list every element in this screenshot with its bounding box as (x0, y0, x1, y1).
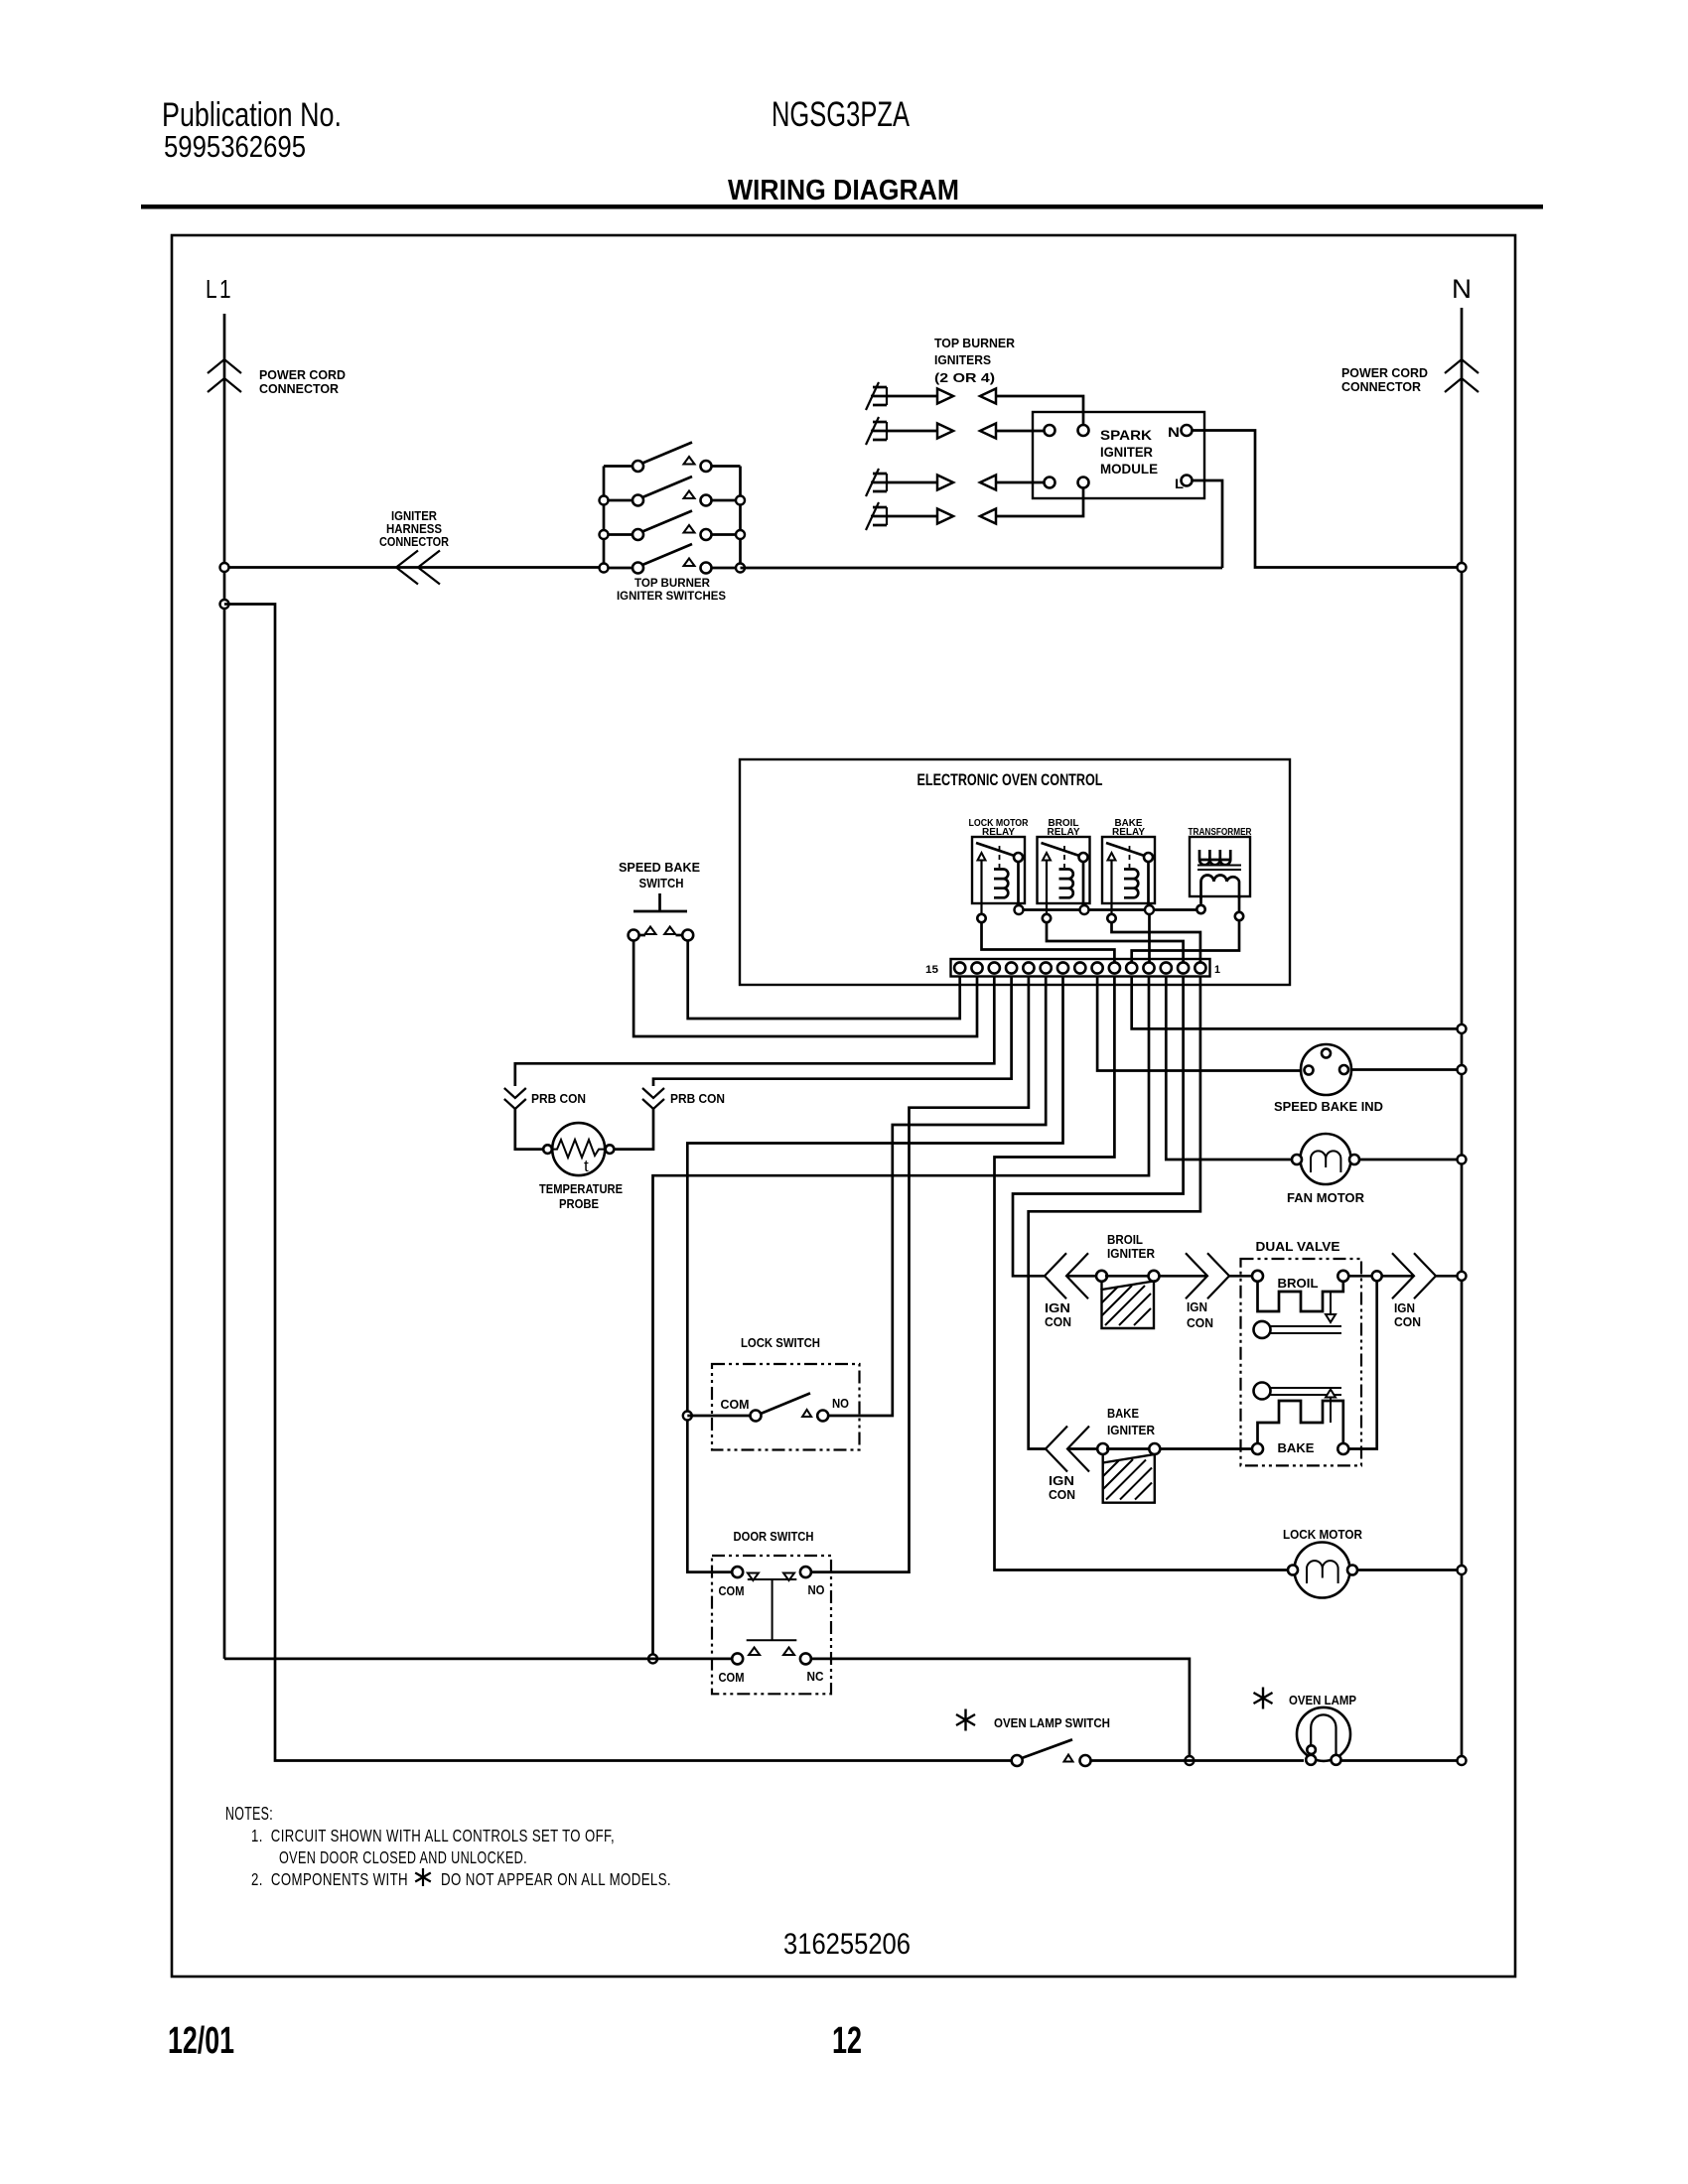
door switch plunger (747, 1579, 797, 1640)
svg-text:IGN: IGN (1187, 1300, 1207, 1314)
probe connector PRB CON right (642, 1088, 725, 1109)
svg-text:NO: NO (832, 1397, 849, 1411)
text model NGSG3PZA (772, 95, 910, 134)
igniter harness connector (379, 509, 449, 585)
svg-text:CON: CON (1187, 1316, 1213, 1330)
text title WIRING DIAGRAM (728, 175, 959, 206)
top burner igniter switch 4 (600, 544, 746, 574)
text broil igniter label (1107, 1233, 1155, 1261)
wire igniter row3 to module (996, 481, 1044, 484)
fan motor M1 (1287, 1134, 1365, 1205)
wire terminal 12 to probe connector right (653, 977, 1012, 1087)
svg-text:CON: CON (1045, 1315, 1071, 1329)
svg-text:PRB CON: PRB CON (531, 1092, 586, 1106)
svg-text:CONNECTOR: CONNECTOR (1341, 379, 1422, 394)
junction L1 lamp branch (220, 600, 229, 609)
svg-text:5995362695: 5995362695 (164, 129, 306, 164)
svg-text:TOP BURNER: TOP BURNER (634, 578, 711, 590)
ign con connector bake left (1046, 1427, 1097, 1503)
lock motor M2 (1288, 1543, 1357, 1598)
oven lamp switch S3 (1012, 1739, 1091, 1766)
wire terminal 7 to speed bake indicator (1097, 977, 1303, 1071)
wire lock motor to N rail (1357, 1569, 1457, 1571)
ign con connector output (1392, 1253, 1436, 1329)
svg-text:SPEED BAKE: SPEED BAKE (619, 860, 700, 875)
door switch lower contacts (719, 1648, 824, 1686)
border frame (172, 235, 1515, 1977)
title underline (141, 205, 1543, 209)
top burner igniter 3 (866, 469, 996, 496)
wire terminal 9 to lock and door switch COM (687, 977, 1062, 1572)
svg-text:TEMPERATURE: TEMPERATURE (539, 1182, 623, 1196)
lock switch S2 (721, 1393, 850, 1421)
relay K1 lock motor relay (972, 837, 1025, 922)
wire speed bake switch left to terminal 14 (633, 941, 977, 1037)
wire terminal 11 to door switch NO (811, 977, 1029, 1572)
wire L1 bus to igniter switches (229, 566, 600, 569)
text oven lamp switch label with asterisk (956, 1709, 1110, 1731)
top burner igniter 1 (866, 382, 996, 410)
svg-text:N: N (1168, 425, 1180, 440)
wire module N to N rail (1193, 431, 1458, 568)
top burner igniter switch 2 (600, 477, 746, 506)
text terminal 1 (1214, 964, 1220, 976)
svg-text:PRB CON: PRB CON (670, 1092, 725, 1106)
node N label (1452, 274, 1472, 304)
wire igniter row4 to module (996, 488, 1083, 516)
svg-text:CON: CON (1394, 1315, 1421, 1329)
junction door lower line (648, 1654, 657, 1663)
svg-text:TOP BURNER: TOP BURNER (934, 336, 1016, 350)
svg-text:WIRING DIAGRAM: WIRING DIAGRAM (728, 175, 959, 206)
svg-text:PROBE: PROBE (559, 1197, 599, 1211)
svg-text:NC: NC (807, 1670, 824, 1684)
transformer right pin (1235, 912, 1243, 920)
wire fan motor to N rail (1359, 1159, 1457, 1161)
wire bake relay coil to terminal 1 (1112, 922, 1200, 962)
svg-text:1: 1 (1214, 964, 1220, 976)
wire terminal 5 to N rail (1132, 977, 1457, 1029)
text electronic oven control (917, 771, 1103, 789)
wire broil igniter to ign con (1160, 1275, 1208, 1278)
junction valve outputs (1372, 1271, 1382, 1281)
wire bake valve to junction (1348, 1281, 1376, 1448)
wire ign con to broil valve (1229, 1275, 1252, 1278)
svg-text:IGNITER: IGNITER (391, 509, 437, 523)
text publication number 5995362695 (164, 129, 306, 164)
lock switch box (712, 1364, 860, 1450)
wire lock relay coil to terminal 6 (982, 922, 1115, 962)
svg-text:OVEN LAMP SWITCH: OVEN LAMP SWITCH (994, 1716, 1110, 1730)
svg-text:SWITCH: SWITCH (639, 876, 684, 890)
svg-text:POWER CORD: POWER CORD (259, 367, 346, 382)
svg-text:IGNITER: IGNITER (1100, 445, 1153, 460)
wire terminal 3 to fan motor (1166, 977, 1297, 1160)
junction N rail at bus (1458, 563, 1467, 572)
text bake valve (1278, 1441, 1315, 1455)
text oven lamp label with asterisk (1253, 1688, 1356, 1709)
wire bus switches to L wire (741, 567, 1223, 570)
wire terminal 6 to lock motor (995, 977, 1294, 1570)
text top burner igniters label (934, 336, 1016, 385)
wire oven lamp to N rail (1341, 1759, 1458, 1762)
svg-text:L1: L1 (206, 274, 233, 304)
text top burner igniter switches label (617, 578, 726, 603)
speed bake switch (619, 860, 700, 941)
svg-text:IGN: IGN (1049, 1474, 1074, 1488)
junction N rail speed bake ind (1458, 1065, 1467, 1074)
svg-text:NOTES:: NOTES: (225, 1804, 273, 1824)
transformer left pin (1196, 905, 1204, 913)
transformer T1 (1190, 837, 1250, 912)
text page 12 (832, 2020, 862, 2062)
wire door switch NC to lamp line (811, 1659, 1190, 1756)
svg-text:DO NOT APPEAR ON ALL MODELS.: DO NOT APPEAR ON ALL MODELS. (441, 1869, 671, 1889)
junction N rail fan motor (1458, 1156, 1467, 1164)
svg-text:COM: COM (719, 1671, 745, 1685)
junction N rail oven lamp (1458, 1756, 1467, 1765)
text door switch label (734, 1530, 814, 1544)
svg-text:IGNITERS: IGNITERS (934, 352, 991, 367)
top burner igniter 4 (866, 502, 996, 530)
spark igniter module box (1033, 412, 1204, 498)
top burner igniter 2 (866, 417, 996, 445)
svg-text:DUAL VALVE: DUAL VALVE (1256, 1239, 1340, 1254)
text lock switch label (741, 1336, 820, 1350)
power cord connector N (1341, 359, 1478, 394)
wire terminal 2 to broil igniter (1013, 977, 1184, 1277)
terminal strip connector (951, 959, 1210, 977)
svg-text:FAN MOTOR: FAN MOTOR (1287, 1190, 1365, 1205)
probe connector PRB CON left (504, 1088, 586, 1109)
text bake igniter label (1107, 1407, 1155, 1437)
top burner igniter switches rails (604, 467, 741, 569)
wire ign con to N rail (1436, 1275, 1457, 1278)
svg-text:BAKE: BAKE (1278, 1441, 1315, 1455)
junction L1 bus (220, 563, 229, 572)
wire relay bus to terminal 4 (1148, 914, 1151, 962)
door switch box (712, 1556, 831, 1694)
svg-text:MODULE: MODULE (1100, 462, 1158, 477)
svg-text:BROIL: BROIL (1278, 1277, 1319, 1291)
junction lamp line door NC (1185, 1756, 1194, 1765)
speed bake indicator DS1 (1274, 1044, 1383, 1114)
svg-text:CONNECTOR: CONNECTOR (259, 381, 340, 396)
svg-text:NO: NO (808, 1583, 825, 1597)
text part number 316255206 (783, 1928, 911, 1961)
wire lock COM branch (687, 1415, 750, 1418)
broil gas outlet (1254, 1321, 1342, 1338)
text dual valve label (1256, 1239, 1340, 1254)
wire speed bake switch right to terminal 15 (688, 941, 960, 1020)
oven lamp DS2 (1297, 1707, 1350, 1765)
bake gas outlet (1254, 1383, 1342, 1400)
svg-text:LOCK SWITCH: LOCK SWITCH (741, 1336, 820, 1350)
svg-text:CONNECTOR: CONNECTOR (379, 535, 449, 549)
wire igniter row2 to module (996, 430, 1044, 433)
text terminal 15 (925, 964, 938, 976)
svg-text:L: L (1175, 477, 1184, 491)
transformer T1 label (1189, 827, 1253, 838)
wire broil relay coil to terminal 2 (1047, 922, 1184, 962)
relay K3 bake relay (1102, 837, 1155, 922)
svg-text:t: t (584, 1157, 589, 1175)
svg-text:IGNITER: IGNITER (1107, 1424, 1155, 1437)
bake igniter E2 (1097, 1443, 1160, 1503)
wire igniter row1 to module (996, 396, 1083, 425)
svg-text:(2 OR 4): (2 OR 4) (934, 370, 995, 385)
svg-text:12: 12 (832, 2020, 862, 2062)
junction lock switch COM branch (683, 1412, 692, 1421)
svg-text:IGN: IGN (1394, 1301, 1415, 1315)
svg-text:IGN: IGN (1045, 1301, 1070, 1315)
wire L1 branch to oven lamp line (224, 605, 1012, 1761)
svg-text:HARNESS: HARNESS (386, 522, 442, 536)
wire module L to bus (1193, 480, 1223, 568)
svg-text:ELECTRONIC OVEN CONTROL: ELECTRONIC OVEN CONTROL (917, 771, 1103, 789)
text note 1 line 2 (279, 1847, 527, 1867)
svg-text:N: N (1452, 274, 1472, 304)
text spark igniter module (1100, 425, 1184, 491)
svg-text:BAKE: BAKE (1107, 1407, 1139, 1421)
wire N rail vertical (1461, 308, 1464, 1761)
svg-text:1. CIRCUIT SHOWN WITH ALL CON: 1. CIRCUIT SHOWN WITH ALL CONTROLS SET T… (251, 1826, 615, 1845)
top burner igniter switch 3 (600, 511, 746, 541)
ign con connector broil left (1045, 1253, 1096, 1329)
broil igniter E1 (1096, 1271, 1160, 1328)
svg-text:LOCK MOTOR: LOCK MOTOR (1283, 1528, 1362, 1542)
ign con connector broil right (1186, 1253, 1229, 1330)
wire transformer to terminal 5 (1132, 920, 1239, 962)
wire bake igniter to bake valve (1160, 1447, 1252, 1450)
svg-text:OVEN DOOR CLOSED AND UNLOCKED.: OVEN DOOR CLOSED AND UNLOCKED. (279, 1847, 527, 1867)
wire terminal 1 to bake igniter (1029, 977, 1200, 1449)
text date 12/01 (168, 2020, 234, 2062)
relay BROIL label (1048, 818, 1080, 838)
junction N rail terminal5 (1458, 1024, 1467, 1033)
svg-text:2. COMPONENTS WITH: 2. COMPONENTS WITH (251, 1869, 408, 1889)
bake valve solenoid (1252, 1390, 1348, 1455)
wire lamp switch to oven lamp (1091, 1759, 1305, 1762)
node L1 label (206, 274, 233, 304)
wire speed bake indicator to N rail (1351, 1068, 1457, 1071)
relay LOCK MOTOR label (969, 818, 1030, 838)
svg-text:IGNITER: IGNITER (1107, 1247, 1155, 1261)
broil valve solenoid (1252, 1271, 1348, 1322)
svg-text:COM: COM (719, 1584, 745, 1598)
wire terminal 4 to door switch lower COM line (653, 977, 1150, 1655)
svg-text:POWER CORD: POWER CORD (1341, 365, 1428, 380)
junction N rail lock motor (1458, 1566, 1467, 1574)
wire broil valve to junction (1348, 1275, 1372, 1278)
power cord connector L1 (208, 359, 346, 396)
wire L1 rail vertical (223, 314, 226, 1659)
svg-text:OVEN LAMP: OVEN LAMP (1289, 1694, 1356, 1707)
door switch upper contacts (719, 1567, 825, 1598)
text lock motor label (1283, 1528, 1362, 1542)
relay output bus (1015, 905, 1197, 914)
svg-text:IGNITER SWITCHES: IGNITER SWITCHES (617, 591, 726, 603)
temperature probe RT1 (539, 1123, 623, 1211)
wire terminal 13 to probe connector (515, 977, 995, 1087)
svg-text:BROIL: BROIL (1107, 1233, 1143, 1247)
text note 2 with asterisk (251, 1868, 671, 1889)
wire probe connector to probe left (515, 1109, 543, 1150)
svg-text:CON: CON (1049, 1488, 1075, 1502)
spark igniter module pins (1045, 425, 1193, 488)
wire junction to ign con right (1382, 1275, 1414, 1278)
text note 1 line 1 (251, 1826, 615, 1845)
svg-text:DOOR SWITCH: DOOR SWITCH (734, 1530, 814, 1544)
text publication no (162, 96, 342, 134)
wire probe connector to probe right (615, 1109, 654, 1150)
svg-text:15: 15 (925, 964, 938, 976)
junction N rail valves (1458, 1272, 1467, 1281)
svg-text:NGSG3PZA: NGSG3PZA (772, 95, 910, 134)
dual valve box (1241, 1259, 1362, 1465)
wire terminal 10 to lock switch NO (829, 977, 1047, 1417)
wire L1 to door switch lower COM (224, 1658, 732, 1661)
svg-text:COM: COM (721, 1398, 750, 1412)
svg-text:12/01: 12/01 (168, 2020, 234, 2062)
svg-text:SPEED BAKE IND: SPEED BAKE IND (1274, 1099, 1383, 1114)
relay BAKE label (1112, 818, 1145, 838)
text broil valve (1278, 1277, 1319, 1291)
relay K2 broil relay (1038, 837, 1090, 922)
svg-text:316255206: 316255206 (783, 1928, 911, 1961)
svg-text:SPARK: SPARK (1100, 428, 1152, 443)
electronic oven control box (740, 759, 1290, 985)
top burner igniter switch 1 (633, 443, 712, 473)
text NOTES heading (225, 1804, 273, 1824)
